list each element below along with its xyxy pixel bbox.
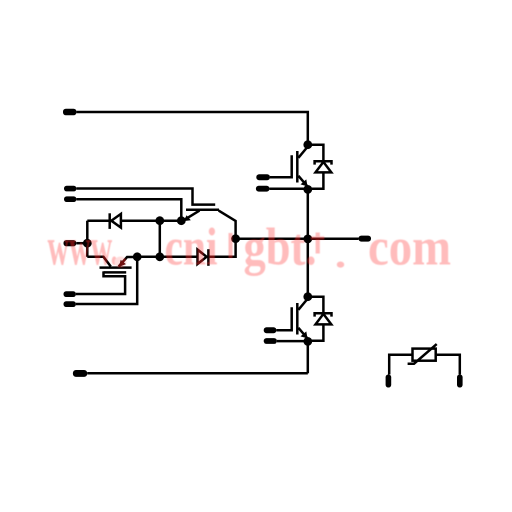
terminal N (bottom left): [73, 370, 87, 377]
node A (Q1 collector): [303, 140, 312, 149]
terminal E1m (aux emitter of mid transistor): [64, 196, 76, 202]
IGBT Q2 emitter diagonal: [298, 328, 307, 342]
node H (Qm emitter junction): [177, 216, 186, 225]
terminal P (top left): [63, 109, 76, 116]
diode D2 bottom connection: [308, 324, 324, 340]
terminal E1 (Q1 aux emitter): [256, 186, 270, 192]
IGBT Q1 channel bar: [296, 151, 299, 183]
diode D1 bottom connection: [308, 172, 324, 188]
svg-text:gbt.: gbt.: [244, 219, 317, 277]
wire: left vertical F net: [86, 221, 89, 257]
wire: E2m lead up to node I: [76, 257, 137, 304]
svg-text:www.: www.: [48, 219, 119, 277]
wire: Q2 gate lead + gate bar: [276, 307, 291, 330]
node J (lower net mid): [155, 252, 164, 261]
IGBT Q1 emitter arrow: [301, 179, 308, 186]
wire: DR to node X: [208, 239, 235, 257]
node B (Q1 emitter): [303, 185, 312, 194]
diode D2 cathode bar with hooks: [315, 313, 332, 316]
wire: upper net y=220.7 left part: [87, 219, 108, 222]
wire: G1m gate lead + gate bar of mid transistor: [76, 189, 215, 205]
terminal G1m (gate of mid transistor): [64, 186, 76, 192]
IGBT Q2 channel bar: [296, 303, 299, 335]
diode DL cathode bar: [108, 213, 111, 229]
transistor Qb emitter diagonal: [119, 257, 138, 266]
node G (upper net mid): [155, 216, 164, 225]
diode D1 top connection: [308, 145, 324, 161]
node E (Q2 emitter): [303, 337, 312, 346]
terminal G2 (Q2 gate): [264, 327, 277, 333]
wire: Q1 gate lead + gate bar: [270, 155, 292, 177]
terminal T1 (thermistor left): [386, 375, 392, 388]
node I (Qb emitter junction): [133, 252, 142, 261]
terminal T2 (thermistor right): [457, 375, 463, 388]
IGBT Q1 emitter diagonal: [298, 176, 307, 190]
node C (output mid): [303, 235, 312, 244]
wire: Q1 emitter down to Q2 collector: [307, 189, 310, 296]
thermistor RT diagonal strike: [408, 344, 437, 364]
diode D2 top connection: [308, 297, 324, 313]
diode D1 cathode bar with hooks: [315, 161, 332, 164]
thermistor RT leads right: [436, 355, 460, 375]
diode DR triangle (points right): [198, 250, 207, 264]
IGBT Q2 emitter arrow: [301, 331, 308, 338]
IGBT Q1 collector diagonal: [298, 147, 307, 158]
wire: upper net y=220.7 right part: [121, 219, 181, 222]
diode DR cathode bar: [207, 249, 210, 266]
wire: G-J vertical: [159, 221, 162, 257]
svg-text:cni: cni: [165, 219, 218, 277]
transistor Qb emitter arrow: [119, 260, 126, 267]
node F (R junction): [83, 239, 92, 248]
wire: N rail: [87, 372, 308, 375]
terminal G2m (gate of bottom-left transistor): [64, 291, 76, 297]
wire: G2m gate lead: [76, 271, 125, 294]
wire: center output line: [236, 238, 359, 241]
terminal OUT (mid right): [359, 236, 372, 242]
wire: E1m lead down to node H: [76, 199, 181, 221]
wire: lower net y=256.8: [137, 256, 197, 259]
node D (Q2 collector): [303, 292, 312, 301]
transistor Qm emitter arrow: [184, 215, 191, 221]
IGBT Q2 collector diagonal: [298, 299, 307, 310]
transistor Qb gate bar: [104, 271, 127, 274]
wire: Q1 aux emitter lead: [270, 188, 308, 191]
svg-text:com: com: [368, 219, 451, 277]
transistor Qm emitter diagonal: [183, 211, 200, 221]
transistor Qm collector diagonal down to node X: [219, 211, 236, 239]
diode D1 triangle (points up): [316, 162, 332, 173]
thermistor RT leads left: [389, 355, 412, 375]
terminal E2m (aux emitter bottom-left transistor): [64, 301, 76, 307]
wire: P rail to Q1 collector: [76, 112, 307, 145]
terminal E2 (Q2 aux emitter): [264, 338, 277, 344]
wire: R to node F: [76, 242, 87, 245]
diode DL triangle (points left): [111, 214, 121, 228]
wire: Q2 aux emitter lead: [277, 340, 308, 343]
transistor Qb channel bar: [100, 266, 132, 269]
node K (node X): [231, 234, 240, 243]
thermistor RT body: [413, 349, 436, 361]
transistor Qb left (collector) lead: [87, 257, 111, 267]
transistor Qm channel bar: [186, 209, 219, 212]
wire: Q2 emitter down to N rail: [307, 341, 310, 373]
terminal G1 (Q1 gate): [256, 174, 270, 180]
terminal R (mid left): [64, 240, 77, 246]
diode D2 triangle (points up): [316, 314, 332, 325]
